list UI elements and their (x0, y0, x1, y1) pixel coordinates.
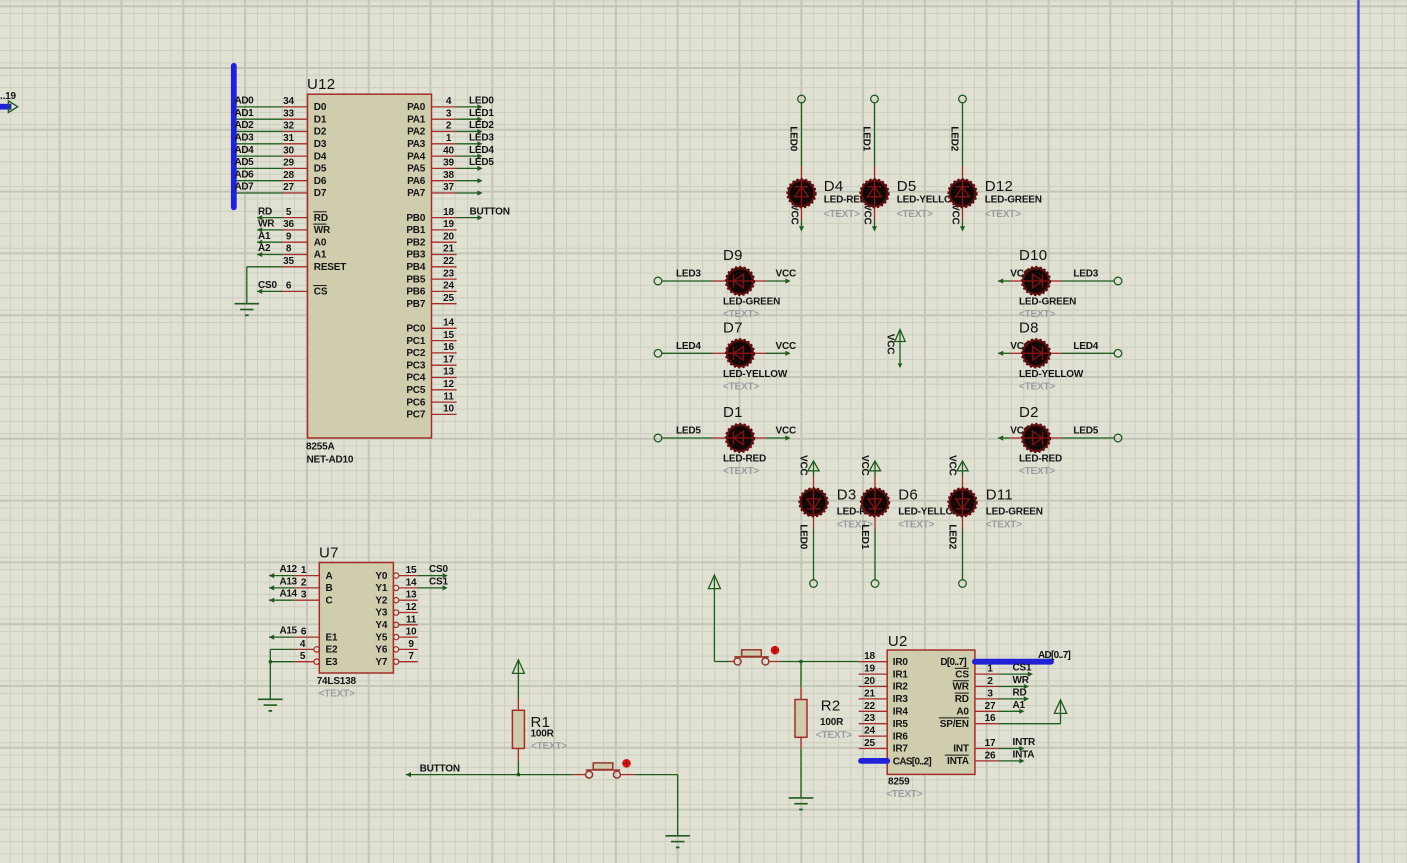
svg-text:A15: A15 (280, 626, 298, 637)
svg-text:D[0..7]: D[0..7] (940, 657, 966, 668)
svg-text:D7: D7 (723, 319, 743, 336)
svg-text:WR: WR (953, 682, 970, 693)
svg-text:R2: R2 (821, 698, 841, 715)
svg-text:10: 10 (406, 627, 417, 638)
svg-text:LED2: LED2 (469, 120, 494, 131)
svg-text:PC3: PC3 (406, 360, 425, 371)
svg-text:B: B (326, 583, 333, 594)
svg-text:CS0: CS0 (258, 280, 277, 291)
svg-text:LED5: LED5 (469, 157, 494, 168)
svg-text:AD7: AD7 (235, 182, 255, 193)
svg-text:74LS138: 74LS138 (317, 676, 357, 687)
svg-text:E1: E1 (326, 632, 338, 643)
svg-text:12: 12 (406, 602, 417, 613)
svg-text:18: 18 (864, 651, 875, 662)
svg-text:U2: U2 (888, 633, 908, 650)
svg-text:20: 20 (864, 676, 875, 687)
svg-text:A0: A0 (314, 237, 327, 248)
svg-text:VCC: VCC (776, 341, 797, 352)
svg-text:A2: A2 (258, 243, 271, 254)
svg-text:PA0: PA0 (407, 102, 426, 113)
svg-text:VCC: VCC (789, 204, 800, 225)
svg-text:19: 19 (864, 664, 875, 675)
svg-text:IR2: IR2 (893, 682, 909, 693)
svg-text:27: 27 (283, 182, 294, 193)
svg-text:U12: U12 (307, 76, 335, 93)
svg-text:16: 16 (985, 713, 996, 724)
svg-text:RD: RD (1013, 688, 1027, 699)
svg-text:23: 23 (864, 713, 875, 724)
svg-text:PB2: PB2 (406, 237, 425, 248)
svg-text:PA5: PA5 (407, 164, 426, 175)
svg-text:AD2: AD2 (235, 120, 255, 131)
svg-text:33: 33 (283, 108, 294, 119)
svg-text:CAS[0..2]: CAS[0..2] (893, 756, 932, 767)
svg-text:PB6: PB6 (406, 287, 425, 298)
svg-text:VCC: VCC (798, 455, 809, 476)
svg-text:VCC: VCC (885, 334, 896, 355)
svg-text:2: 2 (987, 676, 993, 687)
svg-text:6: 6 (286, 281, 292, 292)
svg-text:A1: A1 (314, 250, 327, 261)
svg-text:D12: D12 (985, 178, 1013, 195)
svg-text:A0: A0 (956, 707, 969, 718)
svg-text:LED5: LED5 (1073, 426, 1098, 437)
svg-text:AD4: AD4 (235, 145, 255, 156)
svg-text:27: 27 (985, 701, 996, 712)
svg-text:LED0: LED0 (788, 126, 799, 151)
svg-text:<TEXT>: <TEXT> (1019, 381, 1055, 392)
svg-text:D6: D6 (314, 176, 327, 187)
svg-text:IR0: IR0 (893, 657, 909, 668)
svg-text:WR: WR (258, 219, 275, 230)
svg-text:<TEXT>: <TEXT> (816, 730, 852, 741)
svg-text:A12: A12 (280, 564, 298, 575)
svg-text:13: 13 (406, 590, 417, 601)
svg-text:A1: A1 (258, 231, 271, 242)
svg-text:37: 37 (443, 182, 454, 193)
svg-text:23: 23 (443, 268, 454, 279)
svg-text:D6: D6 (898, 487, 918, 504)
svg-text:LED1: LED1 (859, 524, 870, 549)
svg-text:22: 22 (443, 256, 454, 267)
svg-text:BUTTON: BUTTON (420, 763, 460, 774)
svg-text:D2: D2 (1019, 404, 1039, 421)
svg-text:20: 20 (443, 231, 454, 242)
svg-text:D5: D5 (897, 178, 917, 195)
svg-text:1: 1 (987, 664, 993, 675)
svg-text:AD[0..7]: AD[0..7] (1038, 650, 1071, 661)
svg-text:A14: A14 (280, 589, 298, 600)
svg-text:<TEXT>: <TEXT> (824, 209, 860, 220)
svg-text:CS: CS (314, 287, 328, 298)
svg-text:Y2: Y2 (375, 595, 387, 606)
svg-text:A: A (326, 571, 333, 582)
svg-text:100R: 100R (820, 717, 844, 728)
svg-text:Y1: Y1 (375, 583, 387, 594)
svg-text:Y7: Y7 (375, 657, 387, 668)
svg-text:32: 32 (283, 121, 294, 132)
svg-text:4: 4 (300, 639, 306, 650)
svg-text:LED-YELLOW: LED-YELLOW (1019, 369, 1084, 380)
svg-text:11: 11 (443, 391, 454, 402)
svg-text:PA7: PA7 (407, 188, 426, 199)
svg-text:3: 3 (987, 688, 993, 699)
svg-text:LED0: LED0 (798, 524, 809, 549)
svg-text:34: 34 (283, 96, 294, 107)
svg-text:AD0: AD0 (235, 96, 255, 107)
svg-text:30: 30 (283, 145, 294, 156)
svg-text:<TEXT>: <TEXT> (897, 209, 933, 220)
svg-text:VCC: VCC (776, 269, 797, 280)
svg-text:LED-RED: LED-RED (1019, 454, 1062, 465)
svg-text:RD: RD (314, 213, 328, 224)
svg-text:3: 3 (446, 108, 452, 119)
svg-text:VCC: VCC (859, 455, 870, 476)
svg-text:LED-GREEN: LED-GREEN (985, 195, 1042, 206)
svg-text:AD6: AD6 (235, 169, 255, 180)
svg-text:D2: D2 (314, 127, 327, 138)
svg-text:39: 39 (443, 158, 454, 169)
svg-text:13: 13 (443, 367, 454, 378)
svg-text:15: 15 (443, 330, 454, 341)
svg-text:PC1: PC1 (406, 336, 425, 347)
svg-text:5: 5 (286, 207, 292, 218)
svg-text:14: 14 (406, 577, 417, 588)
svg-text:PB0: PB0 (406, 213, 425, 224)
svg-text:D3: D3 (314, 139, 327, 150)
svg-text:LED-GREEN: LED-GREEN (986, 507, 1043, 518)
svg-text:Y0: Y0 (375, 571, 387, 582)
svg-text:PB7: PB7 (406, 299, 425, 310)
svg-text:35: 35 (283, 256, 294, 267)
svg-text:D10: D10 (1019, 247, 1047, 264)
svg-text:LED-YELLOW: LED-YELLOW (723, 369, 788, 380)
svg-text:E3: E3 (326, 657, 338, 668)
svg-text:LED-GREEN: LED-GREEN (723, 297, 780, 308)
svg-text:2: 2 (446, 121, 452, 132)
svg-text:NET-AD10: NET-AD10 (307, 454, 354, 465)
svg-text:Y6: Y6 (375, 645, 387, 656)
svg-text:22: 22 (864, 701, 875, 712)
svg-text:4: 4 (446, 96, 452, 107)
svg-text:D1: D1 (723, 404, 743, 421)
svg-text:100R: 100R (531, 729, 555, 740)
svg-text:D3: D3 (837, 487, 857, 504)
svg-text:RESET: RESET (314, 262, 346, 273)
svg-text:PB5: PB5 (406, 274, 425, 285)
svg-text:PC5: PC5 (406, 385, 425, 396)
svg-text:28: 28 (283, 170, 294, 181)
svg-text:26: 26 (985, 750, 996, 761)
svg-text:19: 19 (443, 219, 454, 230)
svg-text:10: 10 (443, 404, 454, 415)
svg-text:WR: WR (1013, 675, 1030, 686)
svg-text:IR7: IR7 (893, 744, 909, 755)
svg-text:D9: D9 (723, 247, 743, 264)
svg-text:15: 15 (406, 565, 417, 576)
svg-text:AD5: AD5 (235, 157, 255, 168)
svg-text:LED-GREEN: LED-GREEN (1019, 297, 1076, 308)
svg-text:D1: D1 (314, 114, 327, 125)
svg-text:LED4: LED4 (469, 145, 494, 156)
svg-text:D0: D0 (314, 102, 327, 113)
svg-text:AD1: AD1 (235, 108, 255, 119)
svg-text:<TEXT>: <TEXT> (1019, 466, 1055, 477)
svg-text:8259: 8259 (888, 776, 910, 787)
svg-text:<TEXT>: <TEXT> (723, 381, 759, 392)
svg-text:1: 1 (446, 133, 452, 144)
svg-text:D7: D7 (314, 188, 327, 199)
svg-text:14: 14 (443, 318, 454, 329)
svg-text:1: 1 (301, 565, 307, 576)
svg-text:LED1: LED1 (469, 108, 494, 119)
svg-text:SP/EN: SP/EN (940, 719, 969, 730)
svg-text:17: 17 (443, 354, 454, 365)
svg-text:<TEXT>: <TEXT> (886, 789, 922, 800)
svg-text:PC4: PC4 (406, 373, 425, 384)
svg-text:INT: INT (953, 744, 969, 755)
svg-text:Y3: Y3 (375, 608, 387, 619)
svg-text:LED2: LED2 (947, 524, 958, 549)
svg-text:LED2: LED2 (949, 126, 960, 151)
svg-text:PB1: PB1 (406, 225, 425, 236)
svg-text:<TEXT>: <TEXT> (986, 520, 1022, 531)
svg-text:LED4: LED4 (1073, 341, 1098, 352)
svg-text:RD: RD (258, 206, 272, 217)
svg-text:LED-RED: LED-RED (723, 454, 766, 465)
svg-text:PA1: PA1 (407, 114, 426, 125)
svg-text:<TEXT>: <TEXT> (319, 688, 355, 699)
svg-text:3: 3 (301, 590, 307, 601)
svg-text:6: 6 (301, 627, 307, 638)
svg-text:D4: D4 (314, 151, 327, 162)
svg-text:WR: WR (314, 225, 331, 236)
svg-text:Y5: Y5 (375, 632, 387, 643)
svg-text:25: 25 (864, 738, 875, 749)
svg-text:31: 31 (283, 133, 294, 144)
svg-text:PC7: PC7 (406, 410, 425, 421)
svg-text:PC0: PC0 (406, 324, 425, 335)
svg-text:<TEXT>: <TEXT> (531, 741, 567, 752)
svg-text:11: 11 (406, 614, 417, 625)
svg-text:PA6: PA6 (407, 176, 426, 187)
svg-text:E2: E2 (326, 645, 338, 656)
svg-text:24: 24 (443, 281, 454, 292)
svg-text:VCC: VCC (862, 204, 873, 225)
svg-text:A1: A1 (1013, 700, 1026, 711)
svg-text:29: 29 (283, 158, 294, 169)
svg-text:36: 36 (283, 219, 294, 230)
svg-text:PA4: PA4 (407, 151, 426, 162)
svg-text:CS1: CS1 (429, 576, 448, 587)
svg-text:D8: D8 (1019, 319, 1039, 336)
svg-text:LED4: LED4 (676, 341, 701, 352)
svg-text:CS0: CS0 (429, 564, 448, 575)
svg-text:A13: A13 (280, 576, 298, 587)
svg-text:<TEXT>: <TEXT> (898, 520, 934, 531)
svg-text:PB4: PB4 (406, 262, 425, 273)
svg-text:21: 21 (443, 244, 454, 255)
svg-text:18: 18 (443, 207, 454, 218)
svg-text:D11: D11 (986, 487, 1013, 504)
svg-text:BUTTON: BUTTON (470, 206, 510, 217)
svg-text:8: 8 (286, 244, 292, 255)
svg-text:PA3: PA3 (407, 139, 426, 150)
svg-text:LED0: LED0 (469, 96, 494, 107)
svg-text:38: 38 (443, 170, 454, 181)
svg-text:12: 12 (443, 379, 454, 390)
svg-text:LED1: LED1 (861, 126, 872, 151)
svg-text:INTA: INTA (1013, 750, 1035, 761)
svg-text:LED3: LED3 (469, 133, 494, 144)
svg-text:17: 17 (985, 738, 996, 749)
svg-text:CS1: CS1 (1013, 663, 1032, 674)
svg-text:INTR: INTR (1013, 737, 1037, 748)
svg-text:<TEXT>: <TEXT> (985, 209, 1021, 220)
svg-text:21: 21 (864, 688, 875, 699)
svg-text:5: 5 (300, 651, 306, 662)
svg-text:PB3: PB3 (406, 250, 425, 261)
svg-text:RD: RD (955, 694, 969, 705)
svg-text:IR6: IR6 (893, 731, 909, 742)
svg-text:IR3: IR3 (893, 694, 909, 705)
svg-text:VCC: VCC (950, 204, 961, 225)
svg-text:40: 40 (443, 145, 454, 156)
svg-text:9: 9 (286, 231, 292, 242)
svg-text:IR1: IR1 (893, 669, 909, 680)
svg-text:PA2: PA2 (407, 127, 426, 138)
svg-text:24: 24 (864, 726, 875, 737)
svg-text:VCC: VCC (947, 455, 958, 476)
svg-text:IR4: IR4 (893, 707, 909, 718)
svg-text:INTA: INTA (947, 756, 969, 767)
svg-text:D4: D4 (824, 178, 844, 195)
svg-text:IR5: IR5 (893, 719, 909, 730)
svg-text:C: C (326, 595, 333, 606)
svg-text:PC6: PC6 (406, 397, 425, 408)
svg-text:PC2: PC2 (406, 348, 425, 359)
svg-text:2: 2 (301, 577, 307, 588)
svg-text:CS: CS (955, 669, 969, 680)
svg-text:25: 25 (443, 293, 454, 304)
svg-text:9: 9 (408, 639, 414, 650)
svg-text:<TEXT>: <TEXT> (723, 466, 759, 477)
svg-text:U7: U7 (319, 545, 339, 562)
svg-text:LED3: LED3 (1073, 269, 1098, 280)
svg-text:16: 16 (443, 342, 454, 353)
svg-text:VCC: VCC (776, 426, 797, 437)
svg-text:D5: D5 (314, 164, 327, 175)
svg-text:AD3: AD3 (235, 133, 255, 144)
svg-text:LED5: LED5 (676, 426, 701, 437)
svg-text:7: 7 (408, 651, 414, 662)
svg-text:Y4: Y4 (375, 620, 387, 631)
svg-text:LED3: LED3 (676, 269, 701, 280)
svg-text:8255A: 8255A (306, 441, 334, 452)
